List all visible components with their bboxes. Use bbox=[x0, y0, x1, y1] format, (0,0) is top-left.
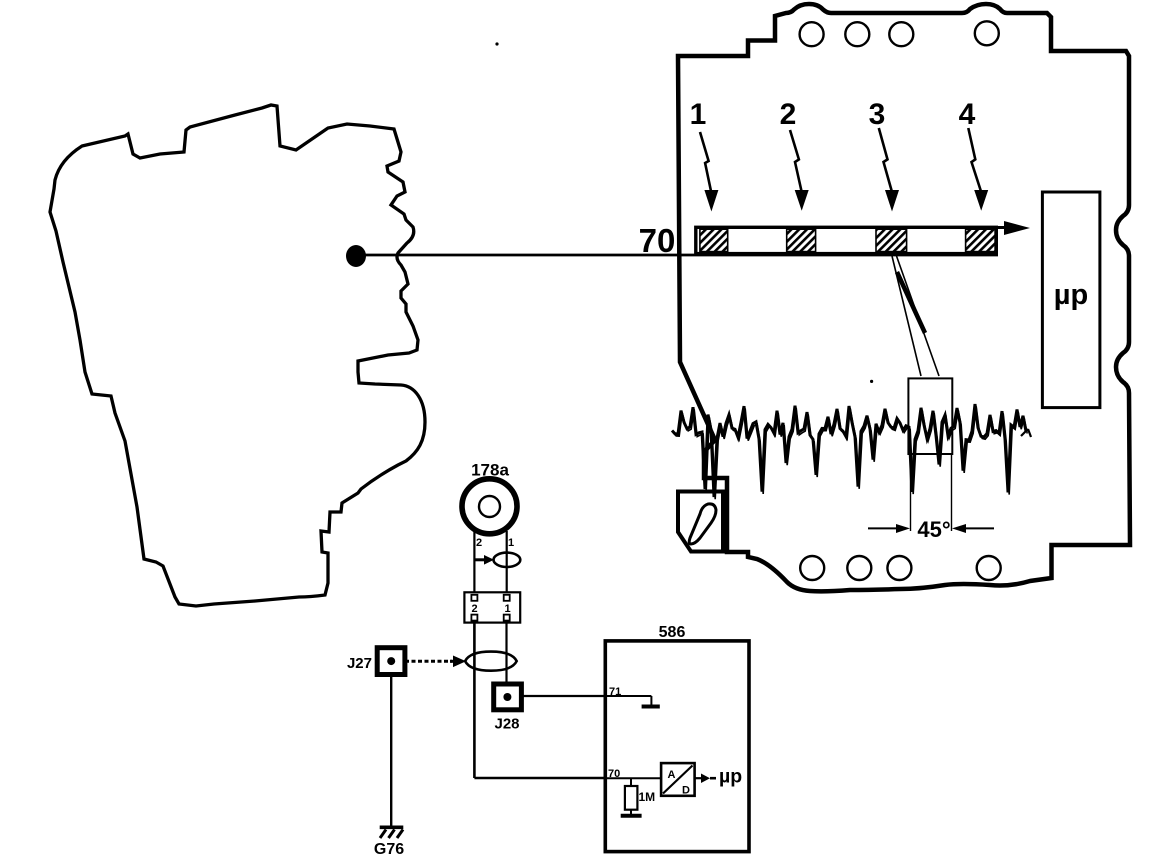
svg-text:4: 4 bbox=[959, 98, 976, 131]
svg-text:A: A bbox=[668, 769, 676, 781]
svg-text:586: 586 bbox=[659, 624, 686, 641]
svg-text:3: 3 bbox=[869, 98, 886, 131]
svg-text:45°: 45° bbox=[917, 517, 950, 542]
svg-text:2: 2 bbox=[472, 603, 478, 615]
svg-text:D: D bbox=[682, 785, 690, 797]
svg-text:J28: J28 bbox=[494, 716, 519, 733]
svg-text:2: 2 bbox=[780, 98, 797, 131]
svg-text:1: 1 bbox=[508, 537, 514, 549]
svg-text:1: 1 bbox=[505, 603, 511, 615]
svg-text:2: 2 bbox=[476, 537, 482, 549]
svg-text:1M: 1M bbox=[639, 790, 656, 804]
svg-text:1: 1 bbox=[690, 98, 707, 131]
svg-text:G76: G76 bbox=[374, 841, 404, 858]
svg-text:70: 70 bbox=[639, 222, 676, 259]
svg-text:J27: J27 bbox=[347, 655, 372, 672]
svg-text:µp: µp bbox=[1054, 279, 1088, 311]
svg-text:µp: µp bbox=[719, 766, 742, 788]
